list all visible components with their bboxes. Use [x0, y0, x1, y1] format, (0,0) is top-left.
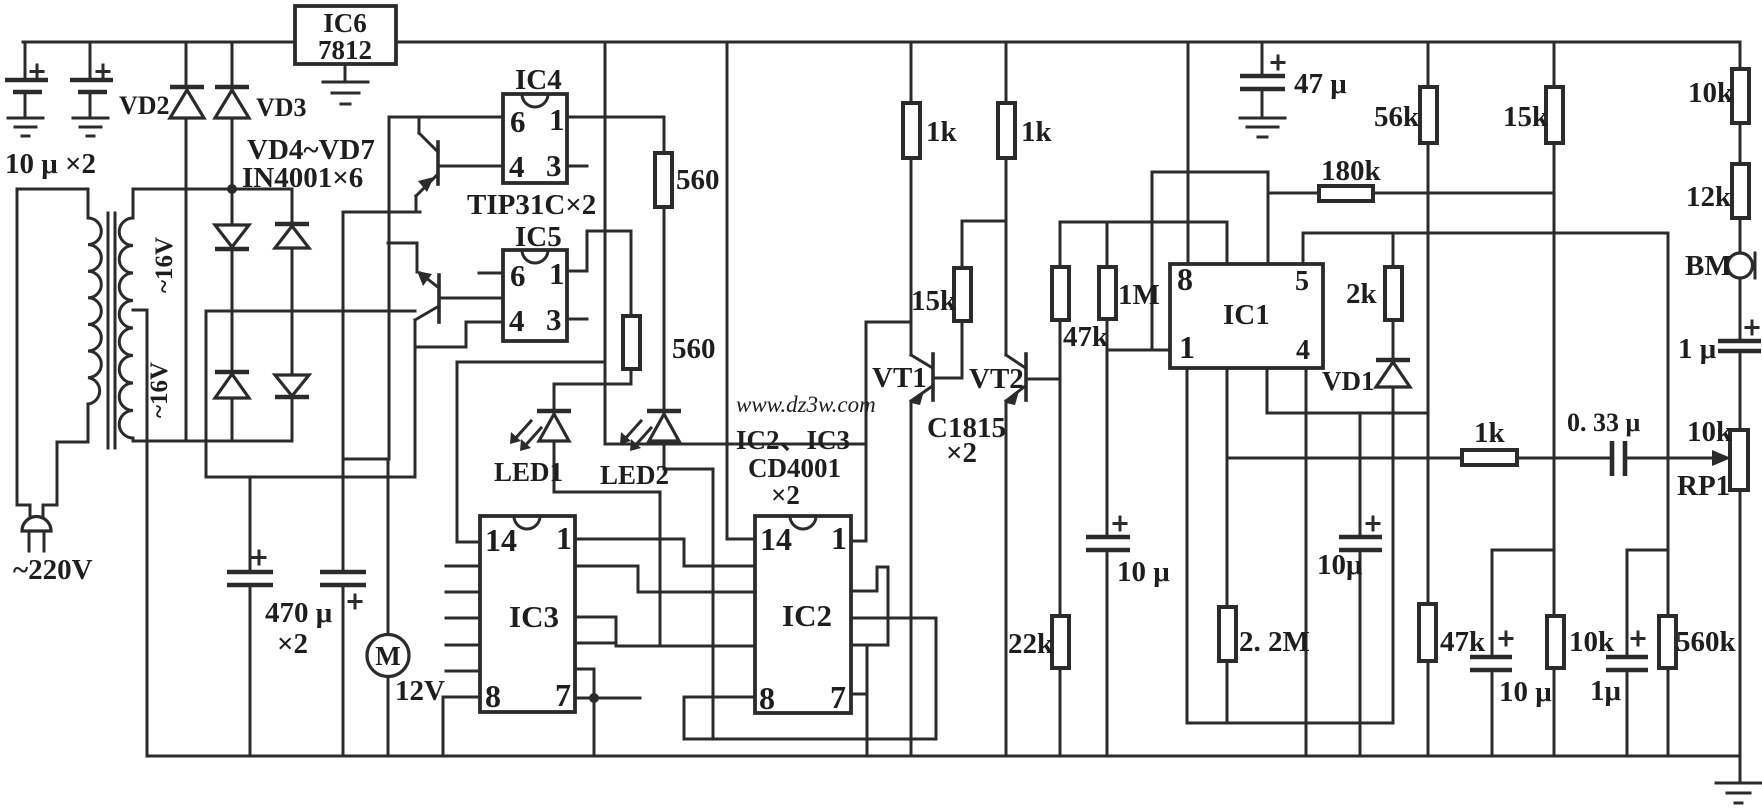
ground below C left2 [73, 118, 108, 136]
diode VD4 bridge upper-left [215, 225, 249, 249]
svg-text:×2: ×2 [946, 437, 977, 469]
wire IC6 ground lead [344, 64, 347, 81]
wire IC5 pin3 stub [567, 318, 587, 321]
svg-text:3: 3 [546, 148, 562, 183]
svg-text:TIP31C×2: TIP31C×2 [467, 189, 596, 221]
svg-text:M: M [375, 641, 400, 671]
svg-text:VD3: VD3 [256, 93, 307, 122]
wire bridge right column [291, 189, 294, 441]
svg-text:8: 8 [485, 678, 501, 714]
diode VD7 bridge lower-right [275, 375, 309, 397]
svg-text:3: 3 [546, 302, 562, 337]
svg-text:1M: 1M [1118, 279, 1160, 311]
svg-text:1: 1 [549, 102, 565, 137]
wire 560 no2 to LED1 [554, 369, 631, 411]
svg-text:15k: 15k [911, 285, 957, 317]
svg-text:10k: 10k [1569, 626, 1615, 658]
resistor 22k [1052, 616, 1069, 668]
wire 1k no1 branch / VT1 collector [910, 42, 913, 355]
wire transformer secondary leads [132, 189, 135, 441]
transformer T1 primary winding [88, 218, 101, 404]
wire 2k branch [1392, 233, 1395, 360]
regulator IC6 7812 box [295, 6, 396, 64]
wire Q2 base line to IC5 [439, 297, 503, 300]
svg-text:6: 6 [510, 104, 526, 139]
wire IC1 pin8 supply from top rail [1187, 42, 1190, 264]
wire IC3 spare input stubs [446, 566, 480, 671]
resistor 47k no1 [1052, 267, 1069, 320]
capacitor 10u no2 [1339, 517, 1382, 550]
capacitor C4 470u no2 [320, 459, 366, 756]
wire IC3 pin8 to ground rail [443, 697, 480, 756]
svg-text:~16V: ~16V [151, 237, 178, 293]
wire VT2 emitter to ground rail [1005, 401, 1008, 756]
transistor Q1 TIP31C upper [416, 133, 438, 196]
wire VT1 base to 15k [933, 221, 962, 378]
svg-text:47 μ: 47 μ [1294, 68, 1347, 100]
svg-text:15k: 15k [1503, 101, 1549, 133]
diode VD3 [215, 87, 249, 118]
transistor Q2 TIP31C lower [415, 271, 439, 322]
wire 560 no1 to LED2 [663, 207, 666, 411]
wire IC2 right jogs [851, 567, 888, 645]
wire transformer primary leads [17, 189, 88, 519]
svg-text:×2: ×2 [277, 628, 308, 660]
wire BM microphone chain [1739, 42, 1742, 756]
svg-text:47k: 47k [1440, 626, 1486, 658]
resistor 560 no1 [655, 153, 672, 207]
wire IC2 pin14 supply from top rail [727, 42, 755, 539]
wire 180k to 15k no2 line [1373, 192, 1554, 195]
wire IC4 pin1 to 560 no1 [567, 117, 664, 155]
wire 12V drop to IC2 pin1 via top jog [605, 322, 911, 541]
svg-text:IC2: IC2 [782, 598, 832, 633]
capacitor C3 470u no1 [227, 477, 273, 756]
svg-text:10 μ: 10 μ [1117, 556, 1170, 588]
svg-text:1: 1 [831, 520, 847, 556]
svg-text:VD1: VD1 [1322, 366, 1375, 396]
resistor 15k no1 [954, 268, 971, 321]
svg-text:7: 7 [830, 679, 846, 715]
wire VD2 branch [185, 42, 188, 441]
svg-text:2. 2M: 2. 2M [1239, 626, 1310, 658]
svg-text:4: 4 [1296, 335, 1310, 366]
microphone BM [1728, 253, 1756, 278]
wire Q2 emitter up-link [388, 243, 417, 272]
svg-text:1 μ: 1 μ [1678, 333, 1717, 365]
wire 47k 1M top rail to IC1 [1060, 222, 1227, 264]
wire LED2 cathode drop [664, 442, 713, 739]
svg-text:1k: 1k [926, 116, 958, 148]
svg-text:180k: 180k [1321, 155, 1382, 187]
svg-text:10k: 10k [1687, 416, 1733, 448]
svg-text:www.dz3w.com: www.dz3w.com [736, 392, 876, 417]
wire IC1 bottom pin c [1267, 368, 1428, 413]
resistor 56k [1420, 87, 1437, 143]
wire IC3 pin7 node [575, 669, 640, 756]
wire VT1 emitter to ground rail [910, 401, 913, 756]
ground below IC6 [323, 82, 368, 104]
diode VD6 bridge lower-left [215, 372, 249, 398]
svg-text:14: 14 [760, 521, 792, 557]
wire IC5 pin1 to 560 no2 [567, 231, 631, 317]
wire 1M node to IC1 pin1 [1107, 349, 1170, 352]
wire bottom ground rail [147, 755, 1740, 758]
svg-text:LED2: LED2 [600, 460, 669, 490]
wire 470u no1 top tap [206, 476, 250, 479]
wire IC1 top pin b / 180k tap [1268, 172, 1319, 264]
svg-text:560: 560 [672, 333, 716, 365]
svg-text:1μ: 1μ [1590, 675, 1622, 707]
svg-text:IN4001×6: IN4001×6 [242, 162, 363, 194]
wire IC4 pin3 stub [567, 165, 587, 168]
transformer T1 core [108, 213, 115, 448]
wire 2.2M branch [1226, 368, 1229, 723]
mains plug symbol [22, 517, 51, 552]
resistor 1k no2 [998, 103, 1015, 158]
wire IC2 pin7 to ground rail [851, 645, 867, 756]
svg-text:10 μ ×2: 10 μ ×2 [5, 148, 96, 180]
IC2 box [755, 516, 851, 713]
wire C1 filter cap lead [24, 42, 27, 118]
wire IC1 side link [1152, 172, 1268, 350]
svg-text:IC3: IC3 [509, 599, 559, 634]
wire motor feed [387, 459, 390, 756]
svg-text:5: 5 [1295, 266, 1309, 297]
svg-text:1k: 1k [1021, 116, 1053, 148]
svg-text:RP1: RP1 [1677, 470, 1730, 502]
svg-text:10k: 10k [1688, 77, 1734, 109]
resistor 12k [1732, 164, 1749, 218]
wire IC3 pin1 jog to IC2 [575, 539, 755, 566]
svg-text:IC2、IC3: IC2、IC3 [736, 425, 850, 455]
potentiometer RP1 [1712, 430, 1748, 490]
svg-text:IC5: IC5 [515, 221, 562, 253]
ground bottom right [1716, 783, 1761, 803]
wire C2 filter cap lead [89, 42, 92, 118]
wire 10u no2 branch [1359, 413, 1362, 756]
svg-text:7: 7 [555, 677, 571, 713]
wire 1k no2 branch / VT2 collector [1005, 42, 1008, 355]
capacitor 10u no1 [1086, 517, 1130, 550]
wire VT2 base / 47k / 22k chain [1026, 222, 1060, 756]
transistor VT1 [911, 354, 933, 405]
svg-text:560: 560 [676, 164, 720, 196]
wire 1u no2 branch [1627, 550, 1668, 756]
svg-text:VT1: VT1 [872, 362, 927, 394]
transformer T1 secondary winding [119, 218, 133, 438]
svg-text:IC1: IC1 [1223, 299, 1270, 331]
svg-text:×2: ×2 [771, 480, 800, 510]
svg-text:CD4001: CD4001 [748, 453, 841, 483]
svg-text:22k: 22k [1008, 628, 1054, 660]
svg-text:LED1: LED1 [494, 457, 563, 487]
IC1 box [1170, 264, 1323, 368]
resistor 560 no2 [623, 316, 640, 369]
wire IC3-IC2 link 2 [575, 566, 755, 592]
junction dot secondary AC node [227, 184, 237, 194]
wire Q1 collector net / IC4 pin6 line [343, 117, 503, 459]
wire 56k / 47k no2 column [1427, 42, 1430, 756]
svg-text:0. 33 μ: 0. 33 μ [1567, 408, 1641, 437]
capacitor 1u no2 [1606, 632, 1648, 670]
wire +12V feed to IC3 pin14 [457, 42, 605, 542]
wire secondary top AC node [133, 188, 292, 191]
diode VD2 [170, 87, 204, 118]
IC3 box [480, 516, 575, 712]
resistor 1k no1 [903, 103, 920, 158]
resistor 2.2M [1219, 607, 1236, 661]
wire secondary bottom AC node [133, 440, 292, 443]
svg-text:10μ: 10μ [1317, 549, 1363, 581]
svg-text:IC6: IC6 [323, 8, 367, 38]
LED2 [620, 411, 681, 451]
wire VD1 bottom to low rail [1392, 387, 1395, 723]
svg-text:~220V: ~220V [13, 554, 93, 586]
svg-text:8: 8 [1177, 261, 1193, 297]
wire Q1 emitter drop [415, 196, 418, 212]
capacitor 47u [1240, 56, 1285, 89]
svg-text:14: 14 [485, 522, 517, 558]
resistor 1k no3 horizontal [1462, 450, 1517, 465]
svg-text:10 μ: 10 μ [1499, 676, 1552, 708]
svg-text:4: 4 [509, 149, 525, 184]
resistor 560k [1659, 616, 1676, 668]
svg-text:8: 8 [759, 680, 775, 716]
wire 15k top to 1k no2 node [962, 220, 1006, 223]
svg-text:47k: 47k [1063, 321, 1109, 353]
motor M [367, 635, 409, 677]
wire 15k no2 / 10k no2 column [1553, 42, 1556, 756]
svg-text:12k: 12k [1686, 181, 1732, 213]
wire IC1 pin4 to ground rail [1305, 368, 1308, 756]
resistor 15k no2 [1546, 87, 1563, 143]
diode VD1 [1376, 360, 1410, 387]
wire IC5 pin6 stub [479, 272, 503, 275]
wire LED1 cathode join [554, 442, 660, 646]
svg-text:7812: 7812 [318, 35, 372, 65]
capacitor 1u no1 [1718, 321, 1761, 351]
svg-text:12V: 12V [395, 675, 445, 707]
capacitor 0.33u [1612, 441, 1625, 476]
svg-text:VD2: VD2 [119, 91, 170, 120]
capacitor C left2 10u electrolytic [70, 65, 113, 92]
wire Q2 collector staircase to IC5 pin4 [415, 320, 503, 347]
wire 10u no3 branch [1492, 550, 1554, 756]
wire VD3 branch [231, 42, 234, 441]
capacitor 10u no3 [1470, 632, 1512, 670]
wire IC2 pin8 wrap-around [684, 618, 936, 739]
resistor 10k no2 [1547, 616, 1564, 668]
resistor 10k no1 [1732, 69, 1749, 123]
ground below 47u [1240, 118, 1285, 137]
svg-text:1: 1 [1179, 329, 1195, 365]
wire 47u supply cap [1261, 42, 1264, 118]
transistor VT2 [1006, 354, 1026, 405]
wire Q1 base line to IC4 pin4 [438, 165, 503, 168]
svg-text:VT2: VT2 [969, 363, 1024, 395]
wire right ground lead [1739, 756, 1742, 782]
svg-text:1: 1 [549, 256, 565, 291]
svg-text:IC4: IC4 [515, 64, 562, 96]
capacitor C left1 10u electrolytic [5, 65, 48, 92]
resistor 1M [1099, 267, 1116, 319]
wire 1M branch to 10u no1 [1106, 222, 1109, 756]
wire top +V rail [23, 41, 1740, 44]
wire bridge mid DC rail [206, 311, 415, 477]
svg-text:2k: 2k [1346, 278, 1378, 310]
ground below C left1 [8, 118, 43, 136]
diode VD5 bridge upper-right [275, 224, 309, 248]
resistor 180k [1319, 186, 1373, 201]
svg-text:6: 6 [510, 258, 526, 293]
svg-text:1k: 1k [1474, 417, 1506, 449]
svg-text:4: 4 [509, 303, 525, 338]
opto IC4 box [503, 94, 567, 183]
wire 560k column [1667, 233, 1670, 756]
resistor 47k no2 [1419, 604, 1436, 661]
wire IC1 pin5 feedback line [1303, 233, 1668, 264]
junction dot IC3 pin7 [589, 693, 599, 703]
opto IC5 box [503, 250, 567, 341]
wire IC1 pin1 bottom drop [1187, 368, 1393, 723]
svg-text:1: 1 [556, 520, 572, 556]
LED1 [510, 411, 571, 451]
svg-text:470 μ: 470 μ [265, 597, 333, 629]
svg-text:560k: 560k [1676, 626, 1737, 658]
wire transformer center tap to ground rail [133, 310, 147, 756]
wire IC3-IC2 link 3 [575, 617, 755, 646]
svg-text:BM: BM [1685, 250, 1732, 282]
resistor 2k [1385, 267, 1402, 320]
svg-text:~16V: ~16V [146, 362, 173, 418]
svg-text:56k: 56k [1374, 101, 1420, 133]
wire main audio line to RP1 [1227, 457, 1712, 460]
